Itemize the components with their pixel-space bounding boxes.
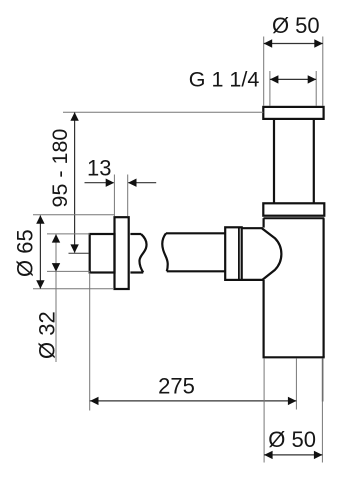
dimension 275: right extension line <box>322 358 324 401</box>
dimension G 1 1/4: extension lines <box>270 71 316 106</box>
dimension Ø50 bottom: extension lines <box>264 358 322 462</box>
dimension 95-180: top extension line <box>63 111 263 113</box>
horizontal pipe left segment with break <box>130 234 146 273</box>
dimension Ø32: extension lines <box>47 234 90 272</box>
dimension 275: left extension line <box>89 273 91 411</box>
bottle top edge line <box>264 217 325 219</box>
dimension 275: dimension line <box>90 400 297 402</box>
top flange (escutcheon) <box>263 107 323 119</box>
dimension Ø65: top arrow <box>36 215 44 224</box>
svg-text:Ø 50: Ø 50 <box>272 13 320 38</box>
dimension Ø50 top: left arrow <box>264 39 273 47</box>
dimension G 1 1/4: dimension line <box>270 78 316 80</box>
wall pipe stub <box>90 234 115 273</box>
dimension Ø65: bottom arrow <box>36 280 44 289</box>
svg-text:G 1 1/4: G 1 1/4 <box>189 68 260 92</box>
svg-text:Ø 65: Ø 65 <box>13 229 38 277</box>
dimension Ø50 bottom: left arrow <box>264 451 273 459</box>
dimension 13: right leader line <box>128 182 156 184</box>
bottle body <box>263 218 325 357</box>
dimension Ø50 top: dimension line <box>264 43 323 45</box>
svg-text:95 - 180: 95 - 180 <box>48 129 72 208</box>
dimension 13: right arrow <box>128 179 137 187</box>
vertical inlet pipe <box>274 119 314 203</box>
svg-text:Ø 50: Ø 50 <box>268 427 316 452</box>
dimension G 1 1/4: right arrow <box>308 75 317 83</box>
horizontal pipe right segment <box>162 233 225 271</box>
dimension Ø50 top: extension lines <box>264 37 323 107</box>
dimension Ø32: dimension/leader line <box>55 234 57 362</box>
dimension 13: left arrow <box>106 179 115 187</box>
dimension 95-180: dimension line <box>74 113 76 253</box>
dimension Ø32: bottom arrow <box>52 263 60 272</box>
coupling nut <box>225 227 242 280</box>
dimension Ø50 top: right arrow <box>314 39 323 47</box>
dimension 275: left arrow <box>90 397 99 405</box>
svg-text:13: 13 <box>87 156 111 181</box>
bottle top nut plate <box>263 203 324 215</box>
dimension 95-180: top arrow <box>70 112 78 121</box>
dimension 275: right arrow <box>288 397 297 405</box>
dimension Ø50 bottom: right arrow <box>314 451 323 459</box>
dimension Ø32: top arrow <box>52 234 60 243</box>
wall flange plate <box>115 217 129 289</box>
dimension Ø65: dimension line <box>39 216 41 289</box>
dimension Ø50 bottom: dimension line <box>264 454 322 456</box>
dimension Ø65: extension lines <box>33 215 114 289</box>
dimension 95-180: bottom arrow <box>70 244 78 253</box>
dimension 13: left leader line <box>85 182 114 184</box>
svg-text:275: 275 <box>158 373 195 398</box>
svg-text:Ø 32: Ø 32 <box>34 311 59 359</box>
dimension G 1 1/4: left arrow <box>270 75 279 83</box>
dimension 13: extension lines <box>114 175 127 217</box>
elbow (pipe-to-bottle connector) <box>241 228 281 280</box>
dimension 95-180: bottom landing line <box>69 252 89 254</box>
